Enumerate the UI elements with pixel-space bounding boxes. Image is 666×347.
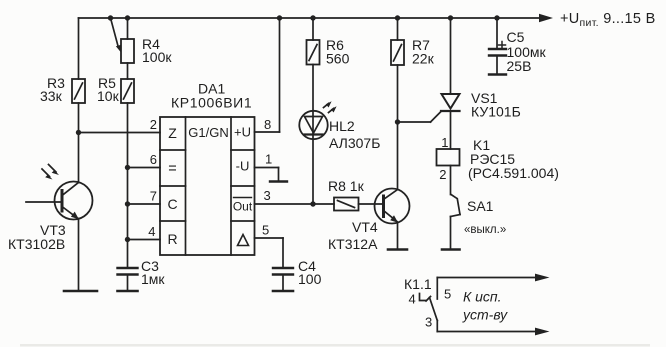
- wire node to pin 4: [128, 239, 161, 241]
- junction pin7: [125, 201, 130, 206]
- resistor R6: [307, 40, 320, 65]
- svg-text:22к: 22к: [412, 51, 435, 67]
- svg-text:6: 6: [150, 152, 157, 167]
- junction wiper-rail: [108, 15, 113, 20]
- potentiometer wiper arrow R4: [111, 18, 122, 53]
- wire rail to R6: [312, 18, 314, 40]
- wire R7 to gate node: [397, 65, 399, 122]
- wire output bottom arrow: [437, 328, 549, 336]
- wire node to pin 7: [128, 203, 161, 205]
- LED HL2: [299, 111, 327, 139]
- relay coil K1: [437, 149, 460, 166]
- transistor VT4: [375, 189, 410, 224]
- svg-text:SA1: SA1: [467, 198, 494, 214]
- resistor R5: [121, 79, 134, 103]
- capacitor C3: [118, 268, 138, 275]
- transistor VT3: [26, 182, 93, 220]
- scan artifact band bottom: [20, 344, 650, 347]
- svg-text:Z: Z: [168, 125, 177, 141]
- ground C5: [489, 73, 506, 75]
- ground VT3: [64, 290, 97, 293]
- svg-text:100: 100: [298, 271, 322, 287]
- ground C3: [118, 290, 138, 293]
- resistor R3: [72, 79, 85, 103]
- svg-text:C5: C5: [507, 29, 525, 45]
- wire K1 to SA1: [450, 166, 452, 195]
- wire R5 down to C3: [127, 103, 129, 268]
- junction pin4: [125, 237, 130, 242]
- wire node to pin 6: [128, 167, 161, 169]
- svg-text:3: 3: [425, 315, 432, 330]
- wire pin 5 to C4: [255, 238, 284, 268]
- svg-text:4: 4: [409, 292, 416, 307]
- wire node to pin 2: [79, 132, 161, 134]
- wire VT4 collector up: [397, 122, 399, 190]
- wire top supply rail: [79, 17, 541, 19]
- svg-text:К1.1: К1.1: [404, 276, 432, 292]
- emission arrows HL2: [324, 101, 337, 112]
- ground pin1: [270, 180, 287, 182]
- wire rail to R7: [397, 18, 399, 40]
- svg-text:VT4: VT4: [352, 219, 378, 235]
- svg-text:КР1006ВИ1: КР1006ВИ1: [171, 95, 252, 111]
- wire rail to R3: [78, 18, 80, 79]
- svg-text:25В: 25В: [507, 58, 532, 74]
- svg-text:4: 4: [148, 224, 155, 239]
- wire SA1 to ground: [450, 217, 452, 250]
- pin label triangle: [238, 235, 249, 246]
- junction R3-pin2: [76, 130, 81, 135]
- node +U supply arrow: [539, 14, 553, 22]
- junction C5-rail: [494, 15, 499, 20]
- svg-text:-U: -U: [236, 159, 250, 174]
- resistor R8: [334, 198, 359, 211]
- resistor R4: [121, 39, 134, 63]
- svg-text:1мк: 1мк: [141, 271, 165, 287]
- svg-text:R8 1к: R8 1к: [328, 178, 365, 194]
- junction R6-rail: [310, 15, 315, 20]
- junction HL2-out: [310, 201, 315, 206]
- svg-text:2: 2: [150, 117, 157, 132]
- svg-text:уст-ву: уст-ву: [462, 307, 508, 323]
- junction VS1-rail: [448, 15, 453, 20]
- wire gate node to VS1: [398, 112, 442, 123]
- svg-text:G1/GN: G1/GN: [188, 125, 228, 140]
- junction R4-rail: [125, 15, 130, 20]
- ground VT4: [388, 248, 407, 251]
- svg-text:=: =: [168, 161, 176, 177]
- svg-text:100к: 100к: [142, 49, 172, 65]
- svg-text:HL2: HL2: [329, 118, 355, 134]
- wire C3 to ground: [127, 275, 129, 292]
- svg-text:2: 2: [439, 167, 446, 182]
- svg-text:8: 8: [264, 117, 271, 132]
- ground SA1: [442, 248, 460, 251]
- svg-text:C: C: [167, 196, 177, 212]
- svg-text:АЛ307Б: АЛ307Б: [329, 135, 380, 151]
- svg-text:R: R: [167, 231, 177, 247]
- svg-text:К исп.: К исп.: [463, 289, 502, 305]
- wire R3 to VT3 collector: [78, 103, 80, 183]
- wire C5 to ground: [496, 56, 498, 75]
- svg-text:1: 1: [265, 152, 272, 167]
- wire pin 1 to ground: [255, 168, 279, 182]
- wire pin 3 output: [255, 203, 335, 205]
- wire VT4 emitter to ground: [397, 223, 399, 250]
- svg-text:33к: 33к: [40, 88, 63, 104]
- wire R6 to HL2: [312, 65, 314, 205]
- junction R5-pin6: [125, 165, 130, 170]
- svg-text:10к: 10к: [97, 88, 120, 104]
- svg-text:1: 1: [441, 135, 448, 150]
- capacitor C4: [273, 268, 293, 275]
- wire rail to VS1 anode: [450, 18, 452, 94]
- wire R4 to R5: [127, 63, 129, 79]
- wire VT3 emitter to ground: [78, 219, 80, 292]
- IC DA1 timer box: [160, 117, 255, 255]
- wire VS1 cathode to K1: [450, 111, 452, 149]
- junction R7-collector-gate: [395, 119, 400, 124]
- svg-text:560: 560: [326, 51, 350, 67]
- junction pin8-rail: [277, 15, 282, 20]
- pin label Out inverted: [233, 198, 253, 214]
- wire rail to C5: [496, 18, 498, 49]
- switch SA1: [451, 195, 461, 217]
- wire output top arrow: [437, 274, 549, 282]
- svg-text:7: 7: [150, 189, 157, 204]
- ground C4: [273, 290, 293, 293]
- svg-text:5: 5: [444, 287, 451, 302]
- resistor R7: [391, 40, 404, 65]
- svg-text:(РС4.591.004): (РС4.591.004): [468, 165, 559, 181]
- junction R7-rail: [395, 15, 400, 20]
- svg-text:КУ101Б: КУ101Б: [471, 104, 521, 120]
- photo arrows VT3: [42, 165, 59, 180]
- svg-text:5: 5: [262, 223, 269, 238]
- wire pin 8 to rail: [255, 18, 280, 132]
- capacitor C5 polar: [489, 42, 506, 56]
- wire R8 to VT4 base: [359, 203, 384, 205]
- svg-text:«выкл.»: «выкл.»: [464, 224, 506, 236]
- wire C4 to ground: [282, 275, 284, 292]
- svg-text:+U: +U: [234, 125, 251, 140]
- svg-text:3: 3: [264, 188, 271, 203]
- svg-text:КТ312А: КТ312А: [328, 236, 378, 252]
- wire rail to R4: [127, 18, 129, 39]
- svg-text:КТ3102В: КТ3102В: [8, 236, 65, 252]
- svg-text:+Uпит. 9...15 В: +Uпит. 9...15 В: [560, 11, 656, 29]
- svg-text:Out: Out: [233, 200, 253, 214]
- relay contact K1.1: [420, 278, 438, 332]
- thyristor VS1: [441, 94, 460, 111]
